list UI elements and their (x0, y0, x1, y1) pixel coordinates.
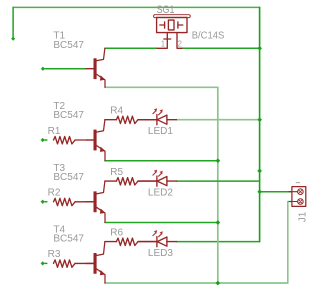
wire R2 to base (75, 201, 94, 203)
node junction rail-LED1 row (257, 117, 262, 122)
pin 1 J1 (289, 191, 298, 193)
wire T2 collector to R4 (105, 119, 117, 121)
wire T3 emitter row (105, 222, 218, 224)
wire T3 collector to R5 (105, 180, 117, 182)
buzzer SG1 (154, 15, 191, 49)
svg-text:B/C14S: B/C14S (192, 31, 225, 42)
LED LED1 (138, 108, 176, 125)
wire buzzer pin2 to rail (182, 47, 260, 49)
transistor T3 (86, 181, 105, 222)
wire right rail vertical (259, 7, 261, 241)
wire buzzer pin1 to T1 collector (105, 47, 157, 49)
wire R3 left lead (45, 262, 47, 264)
svg-text:LED1: LED1 (148, 126, 173, 137)
svg-text:BC547: BC547 (53, 110, 84, 121)
wire LED2 row to rail (177, 180, 260, 182)
wire R1 left lead (45, 139, 47, 141)
wire R5 to LED (138, 180, 157, 182)
wire T4 collector to R6 (105, 241, 117, 243)
wire R6 to LED (138, 241, 157, 243)
svg-text:BC547: BC547 (53, 234, 84, 245)
wire R2 left lead (45, 201, 47, 203)
resistor R4 (116, 116, 138, 123)
wire emitter bus vertical (217, 87, 219, 283)
node junction rail-buzzer (257, 46, 262, 51)
node junction R3 end dot (41, 261, 45, 265)
svg-text:SG1: SG1 (157, 4, 175, 16)
resistor R2 (54, 198, 76, 205)
node junction bus-bottom row (215, 281, 220, 286)
node junction left stub end dot (11, 37, 15, 41)
pin 2 J1 (289, 201, 298, 203)
resistor R3 (54, 260, 76, 267)
transistor T1 (86, 48, 105, 87)
svg-text:R6: R6 (110, 227, 123, 238)
svg-text:R1: R1 (48, 126, 61, 137)
node junction R1 end dot (41, 138, 45, 142)
wire J1 pin1 to rail (260, 191, 292, 193)
LED LED3 (138, 230, 176, 247)
wire J1 pin2 to bottom row (288, 202, 292, 284)
svg-text:R3: R3 (48, 249, 61, 260)
node junction bus-T3 emitter (216, 220, 221, 225)
transistor T4 (86, 242, 105, 283)
wire R1 to base (75, 139, 94, 141)
LED LED2 (138, 170, 176, 187)
wire R3 to base (75, 262, 94, 264)
pin mark 1 J1 (296, 182, 300, 184)
svg-text:BC547: BC547 (53, 172, 84, 183)
svg-text:LED3: LED3 (148, 248, 173, 259)
node junction rail extra junction (257, 169, 262, 174)
transistor T2 (86, 120, 105, 161)
wire left vertical stub (12, 7, 14, 38)
resistor R6 (116, 238, 138, 245)
svg-text:R2: R2 (48, 188, 61, 199)
node junction R2 end dot (41, 200, 45, 204)
svg-text:2: 2 (177, 39, 182, 49)
svg-text:J1: J1 (298, 211, 309, 222)
wire top horizontal supply (13, 6, 260, 8)
svg-text:1: 1 (161, 39, 166, 49)
pin 1 SG1 (157, 33, 167, 49)
pin 2 SG1 (177, 33, 182, 49)
wire rail corner to LED3 row (177, 241, 260, 243)
wire T2 emitter row (105, 160, 218, 162)
node junction bus-T2 emitter (216, 158, 221, 163)
node junction rail-J1 pin1 (257, 189, 262, 194)
wire R4 to LED (138, 119, 157, 121)
node junction T1 base end dot (41, 67, 45, 71)
wire T1 base (45, 68, 86, 70)
svg-text:R5: R5 (110, 167, 123, 178)
connector J1 (289, 187, 306, 207)
wire LED1 row to rail (177, 119, 260, 121)
wire T1 emitter row (105, 86, 218, 88)
wire bottom emitter row (105, 282, 288, 284)
svg-text:LED2: LED2 (148, 187, 173, 198)
svg-text:BC547: BC547 (53, 40, 84, 51)
resistor R1 (54, 137, 76, 144)
svg-text:R4: R4 (110, 105, 123, 116)
resistor R5 (116, 178, 138, 185)
